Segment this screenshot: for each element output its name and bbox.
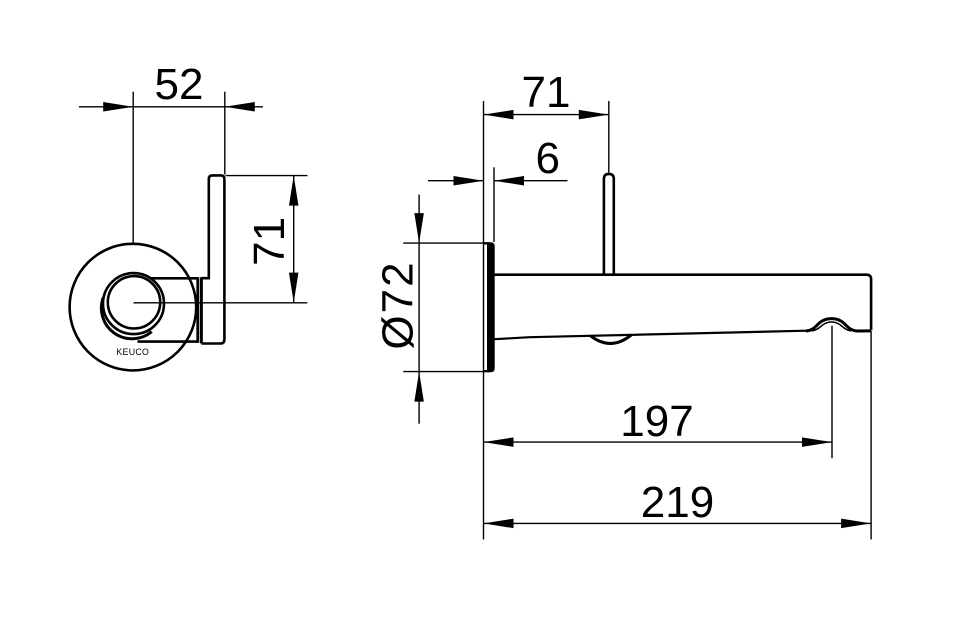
side view: aerator wave outer bbox=[806, 319, 871, 331]
dimension 6: left leader line bbox=[428, 180, 484, 182]
dimension 71 side: label bbox=[522, 68, 571, 117]
front view: hub inner circle bbox=[108, 276, 160, 328]
side view: aerator wave inner bbox=[812, 322, 851, 331]
dimension 219: dimension line bbox=[484, 522, 872, 524]
dimension 197: left arrowhead bbox=[484, 437, 514, 447]
dimension 52: right arrowhead bbox=[225, 102, 255, 112]
side view: wall flange bbox=[484, 242, 495, 372]
dimension 52: label bbox=[155, 60, 204, 109]
dimension 6: left arrowhead bbox=[454, 176, 484, 186]
side view: wall extension line bbox=[483, 101, 485, 540]
dimension 197: label bbox=[620, 397, 693, 446]
front view: hub outer circle bbox=[103, 273, 164, 334]
dimension diameter 72: bottom arrowhead bbox=[414, 372, 424, 402]
dimension 71 front: top arrowhead bbox=[289, 176, 299, 206]
dimension 197: extension line right bbox=[831, 326, 833, 459]
svg-text:Ø72: Ø72 bbox=[373, 260, 422, 349]
front view: cartridge sleeve rectangle bbox=[138, 277, 198, 343]
dimension 6: right leader line bbox=[494, 180, 568, 182]
svg-text:219: 219 bbox=[641, 478, 714, 527]
front view: hub offset arc bbox=[101, 298, 151, 339]
dimension 71 side: left arrowhead bbox=[484, 110, 514, 120]
side view: spout top and right edge bbox=[494, 275, 871, 331]
dimension diameter 72: bottom extension line bbox=[403, 371, 483, 373]
KEUCO logo text bbox=[116, 347, 149, 357]
side view: spout bottom edge bbox=[494, 331, 807, 340]
dimension 52: dimension line bbox=[79, 106, 263, 108]
front view: center line bbox=[134, 302, 308, 304]
dimension 219: right arrowhead bbox=[841, 519, 871, 529]
svg-text:KEUCO: KEUCO bbox=[116, 347, 149, 357]
dimension 71 front: dimension line bbox=[293, 176, 295, 303]
dimension 71 front: label bbox=[245, 217, 294, 266]
front view: escutcheon circle bbox=[70, 244, 197, 371]
dimension 197: dimension line bbox=[484, 441, 833, 443]
side view: underside bump arc bbox=[591, 335, 632, 344]
dimension 52: extension line left bbox=[132, 92, 134, 243]
dimension diameter 72: top arrowhead bbox=[414, 213, 424, 243]
side view: lever rod bbox=[604, 174, 614, 276]
dimension 6: extension line right bbox=[493, 167, 495, 242]
dimension 219: label bbox=[641, 478, 714, 527]
dimension 219: extension line right bbox=[870, 331, 872, 540]
svg-text:52: 52 bbox=[155, 60, 204, 109]
svg-text:197: 197 bbox=[620, 397, 693, 446]
dimension 6: label bbox=[536, 134, 560, 183]
dimension diameter 72: label bbox=[373, 260, 422, 349]
dimension 219: left arrowhead bbox=[484, 519, 514, 529]
svg-text:71: 71 bbox=[245, 217, 294, 266]
dimension 6: right arrowhead bbox=[494, 176, 524, 186]
dimension 71 side: dimension line bbox=[484, 114, 609, 116]
dimension 71 front: top extension line bbox=[226, 175, 308, 177]
dimension 197: right arrowhead bbox=[802, 437, 832, 447]
dimension 71 side: extension line right bbox=[608, 101, 610, 173]
dimension 71 side: right arrowhead bbox=[579, 110, 609, 120]
dimension diameter 72: top extension line bbox=[403, 242, 483, 244]
svg-text:71: 71 bbox=[522, 68, 571, 117]
dimension 71 front: bottom arrowhead bbox=[289, 273, 299, 303]
dimension 52: extension line right bbox=[224, 92, 226, 175]
front view: lever handle (vertical blade and base) bbox=[201, 175, 224, 343]
dimension diameter 72: dimension line bbox=[418, 195, 420, 424]
front view: lever joint line bbox=[200, 277, 203, 343]
dimension 52: left arrowhead bbox=[103, 102, 133, 112]
svg-text:6: 6 bbox=[536, 134, 560, 183]
